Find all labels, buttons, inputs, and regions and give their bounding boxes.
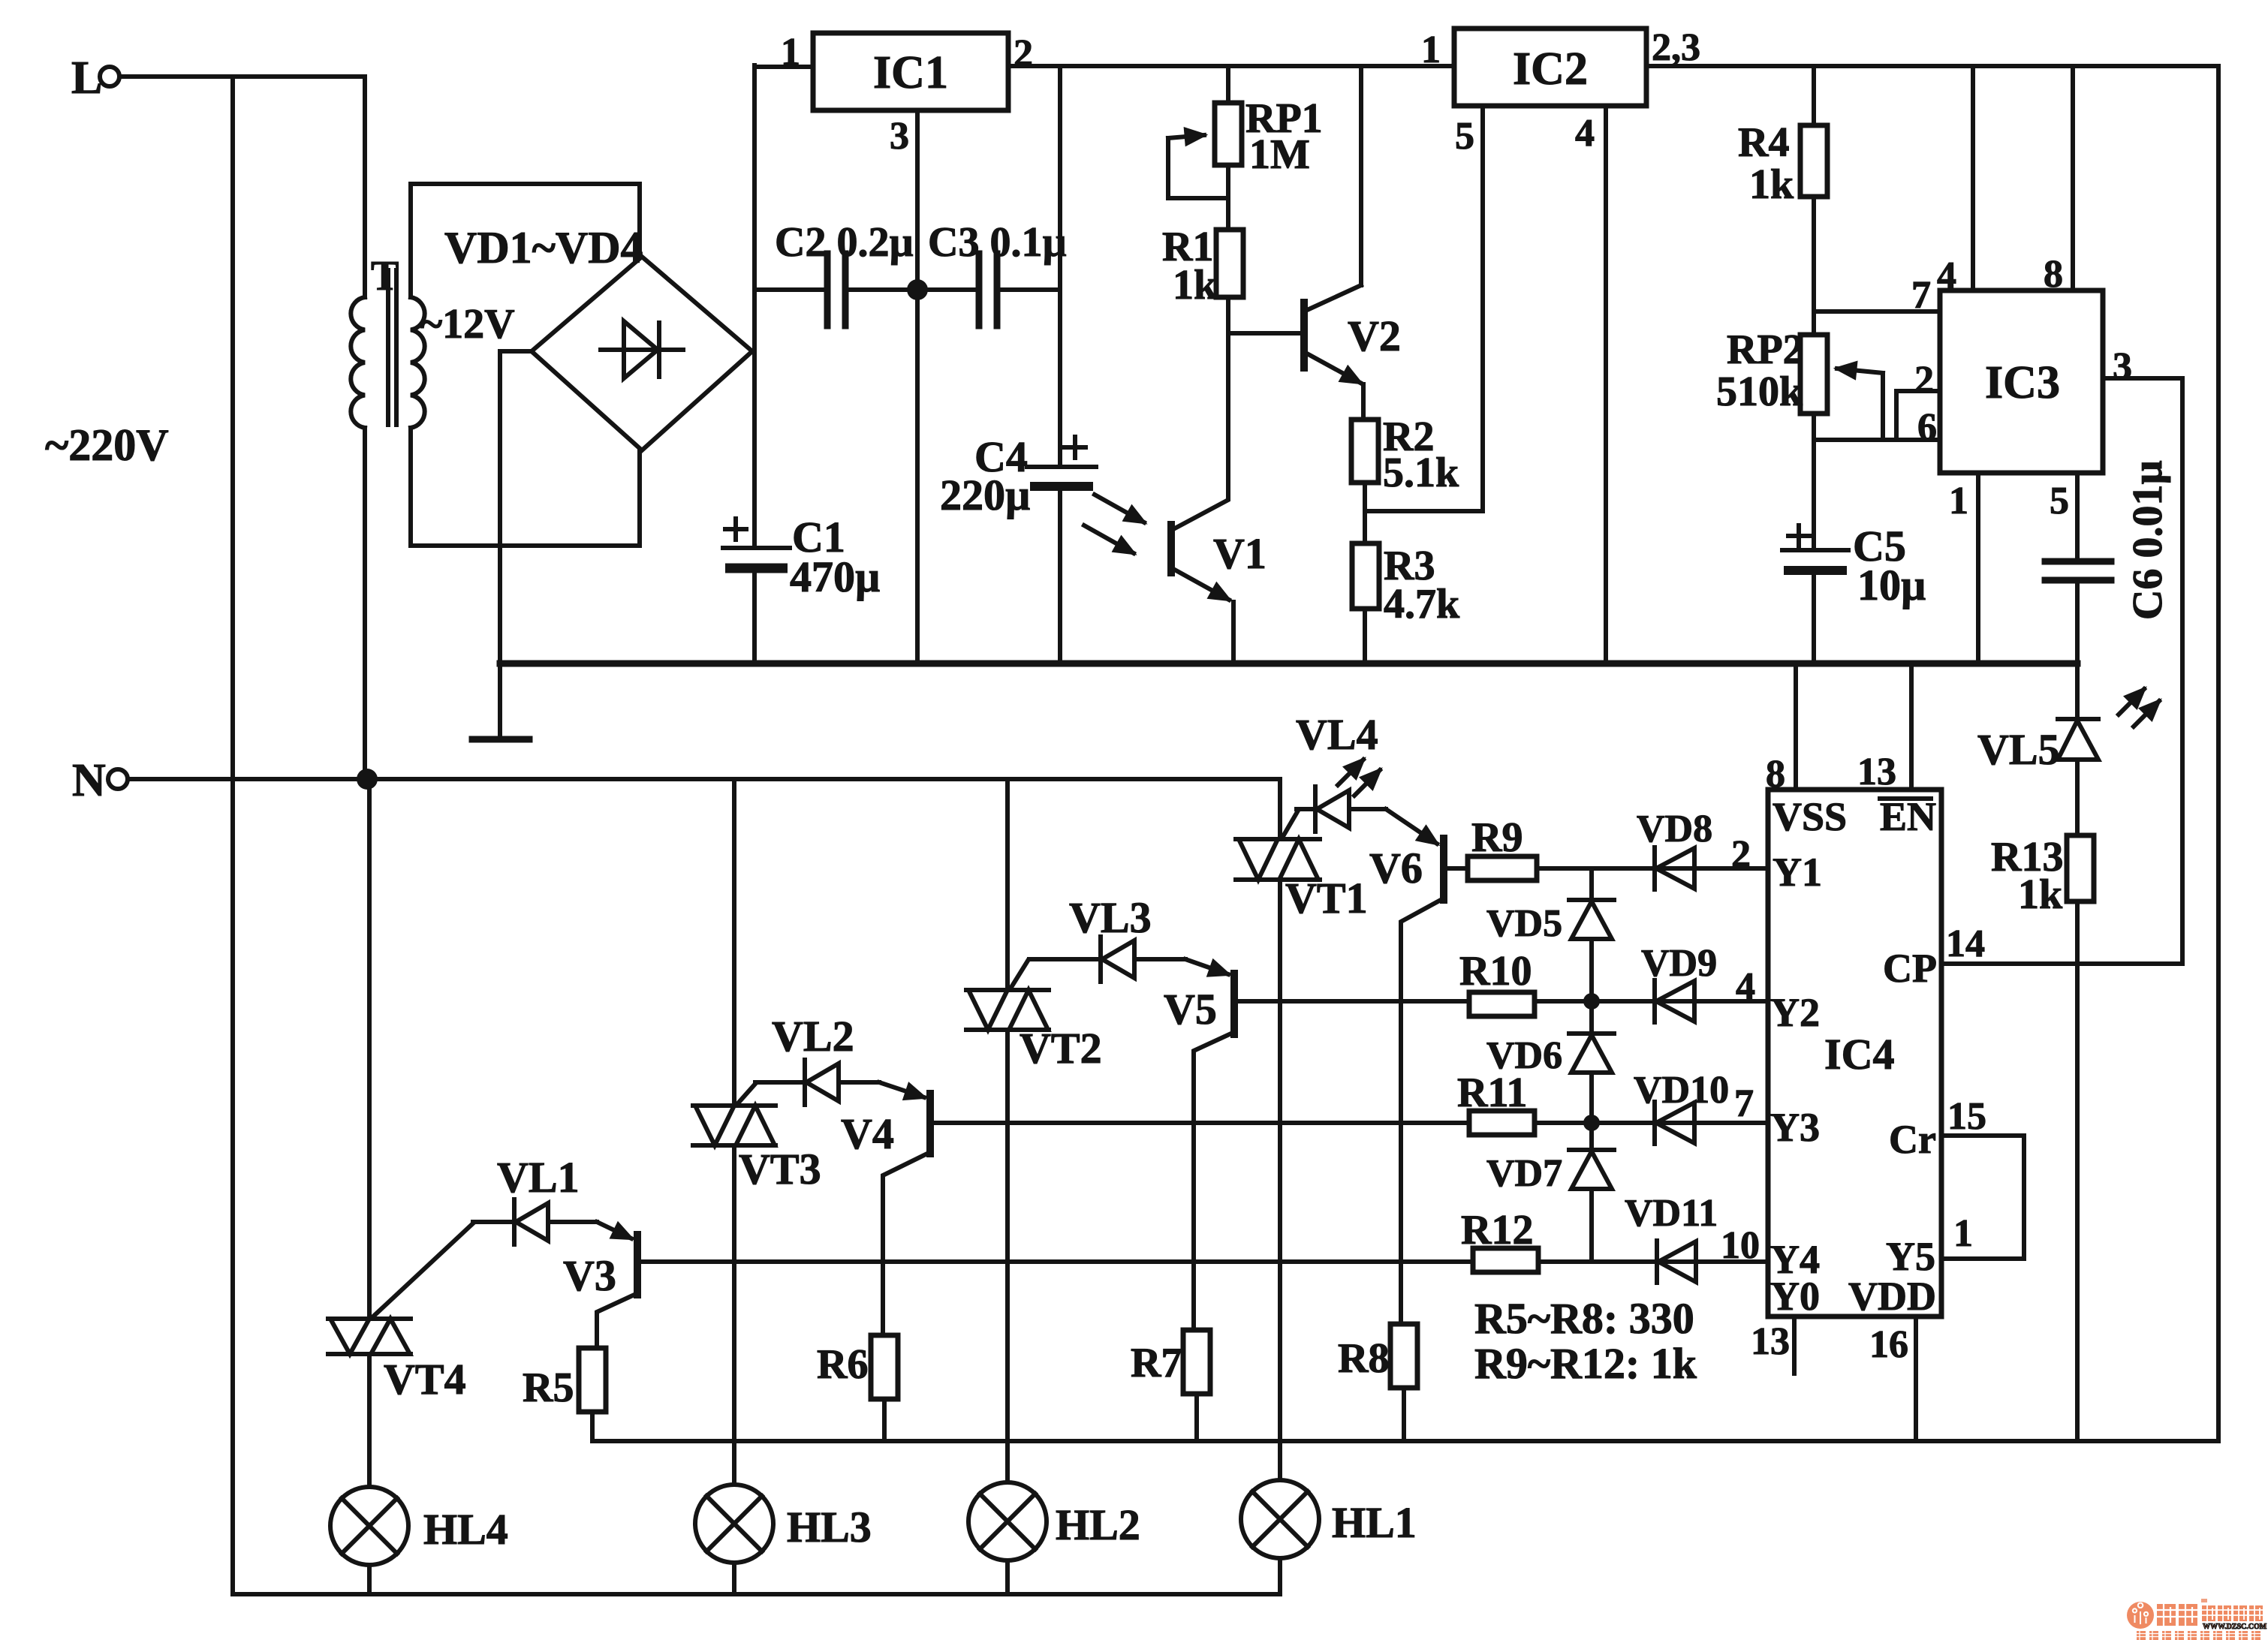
wire top rail IC1 pin2 to IC2 pin1 [1008,64,1454,68]
svg-text:VD9: VD9 [1641,942,1717,985]
svg-text:V3: V3 [563,1251,616,1300]
watermark text 专业电子元器件交易网站 [2137,1631,2260,1640]
svg-text:14: 14 [1946,922,1985,965]
op IC3 box [1940,290,2103,473]
svg-text:T: T [371,253,399,299]
svg-text:VL2: VL2 [772,1012,854,1061]
wire transformer primary bottom to N rail [363,428,367,779]
node junction C2/C3/pin3 [907,279,928,300]
resistor R3 [1352,543,1460,627]
transformer T secondary winding [411,297,425,428]
wire bridge plus down to C1 [752,351,757,548]
svg-text:CP: CP [1883,946,1937,991]
diode VD5 [1486,868,1614,1001]
transistor V2 [1304,66,1401,420]
wire Cr to Y5 loop [1941,1136,2024,1259]
transistor V4 [841,1082,1469,1335]
svg-text:C6 0.01µ: C6 0.01µ [2125,460,2171,620]
svg-text:8: 8 [2044,253,2063,296]
potentiometer RP2 [1716,326,1883,440]
wire IC1 pin1 left [754,65,813,69]
svg-text:VL3: VL3 [1069,893,1152,942]
resistor R2 [1351,414,1459,496]
svg-text:5: 5 [1455,115,1474,158]
svg-text:WWW.DZSC.COM: WWW.DZSC.COM [2203,1623,2267,1631]
svg-text:VT3: VT3 [739,1145,821,1193]
svg-text:220µ: 220µ [940,471,1030,519]
resistor R7 [1131,1330,1210,1441]
wire top rail IC2 to right edge [1646,64,2218,68]
wire bridge minus corner to ground [500,351,532,738]
wire bottom return rail [233,1592,1280,1596]
wire +5V vertical from top rail through C4 [1058,66,1062,467]
svg-text:HL1: HL1 [1332,1498,1417,1547]
svg-text:VD5: VD5 [1486,902,1562,945]
resistor R9 [1468,814,1537,880]
svg-text:1M: 1M [1249,131,1310,178]
node N terminal [72,755,128,806]
svg-text:V1: V1 [1213,529,1267,578]
svg-text:3: 3 [890,115,909,158]
resistor R4 [1738,66,1827,335]
svg-text:VL1: VL1 [497,1153,580,1202]
svg-text:R9~R12: 1k: R9~R12: 1k [1474,1339,1697,1388]
svg-text:C3 0.1µ: C3 0.1µ [928,219,1067,266]
LED VL3 [1029,893,1185,982]
diode VD10 [1535,1069,1768,1144]
wire R2 to R3 [1363,483,1367,543]
diode VD6 [1486,1001,1614,1123]
transformer T primary winding [351,297,365,428]
svg-text:Y2: Y2 [1770,990,1820,1035]
diode VD7 [1486,1123,1614,1262]
capacitor C4 [940,432,1096,664]
capacitor C5 [1782,440,1926,664]
LED VL5 [1977,689,2159,835]
wire V2 base tap [1228,331,1300,336]
LED VL4 [1296,710,1386,832]
svg-text:1: 1 [1421,29,1441,71]
svg-text:5: 5 [2050,480,2069,522]
optocoupler transistor V1 [1084,495,1267,664]
op IC2 box [1454,29,1646,106]
svg-text:R4: R4 [1738,119,1789,166]
transformer T core [386,270,390,425]
svg-text:VL5: VL5 [1977,725,2060,774]
svg-text:C2 0.2µ: C2 0.2µ [775,219,914,266]
wire left vertical rail from L down to bottom rail [230,77,235,1594]
svg-text:L: L [71,53,102,104]
svg-text:R7: R7 [1131,1340,1182,1386]
wire right edge vertical top rail to VDD rail [2216,66,2221,1441]
svg-text:R12: R12 [1461,1207,1533,1253]
svg-text:VDD: VDD [1848,1274,1936,1319]
watermark logo circle [2127,1602,2154,1629]
svg-text:10µ: 10µ [1857,561,1926,609]
triac VT3 [693,779,821,1485]
svg-text:4: 4 [1575,112,1595,155]
svg-text:V6: V6 [1369,844,1423,892]
svg-text:VSS: VSS [1773,794,1847,839]
wire IC3 pin5 to C6 [2075,473,2080,561]
wire ground rail horizontal [500,661,2077,667]
svg-text:IC3: IC3 [1985,357,2060,408]
svg-text:VD11: VD11 [1625,1192,1718,1235]
svg-text:8: 8 [1766,753,1785,796]
op IC1 regulator box [813,33,1008,110]
svg-text:V4: V4 [841,1109,894,1158]
node junction VD6/R11 [1583,1115,1600,1131]
diode VD11 [1538,1192,1768,1283]
svg-text:IC2: IC2 [1513,44,1588,95]
svg-text:R10: R10 [1459,948,1532,995]
svg-text:V5: V5 [1164,985,1217,1034]
wire IC4 Y0 pin13 stub [1792,1317,1797,1374]
svg-text:5.1k: 5.1k [1383,450,1459,496]
svg-text:4.7k: 4.7k [1384,581,1460,627]
wire R3 to ground rail [1363,609,1367,664]
svg-text:13: 13 [1751,1320,1790,1363]
resistor R5 [523,1348,606,1441]
watermark text 电子市场网 [2202,1605,2263,1621]
resistor R6 [817,1335,898,1441]
svg-text:2,3: 2,3 [1652,26,1700,69]
svg-text:1: 1 [1949,480,1968,522]
svg-text:VD7: VD7 [1486,1152,1562,1195]
svg-text:1k: 1k [1173,262,1218,308]
wire L to transformer [119,74,365,79]
wire bottom supply rail [592,1439,2218,1443]
potentiometer RP1 [1168,66,1323,230]
wire IC3 pin3 to CP column [2103,378,2182,964]
resistor R8 [1338,1324,1417,1441]
bridge rectifier VD1~VD4 diamond [532,257,752,450]
resistor R13 [1991,834,2094,1441]
wire IC3 pin7 [1814,309,1940,314]
watermark text 维库 [2157,1604,2197,1626]
wire IC2 pin4 to ground rail [1604,106,1608,664]
node junction transformer/VT4 on N rail [357,769,378,790]
resistor R1 [1162,224,1243,308]
svg-text:470µ: 470µ [790,552,880,601]
resistor R11 [1457,1070,1535,1135]
svg-text:1: 1 [1953,1212,1973,1255]
wire transformer primary top [363,77,367,297]
svg-text:1k: 1k [1749,161,1794,208]
capacitor C6 [2045,460,2171,664]
svg-text:1k: 1k [2018,871,2063,918]
svg-text:HL4: HL4 [423,1505,508,1554]
wire IC3 pin8 to top rail [2071,66,2075,290]
transistor V6 [1369,809,1468,1324]
svg-text:VD8: VD8 [1637,808,1712,850]
svg-text:HL3: HL3 [787,1503,872,1551]
svg-text:VD1~VD4: VD1~VD4 [444,223,643,272]
svg-text:RP2: RP2 [1727,326,1804,373]
wire IC3 pin2 jog [1896,391,1940,440]
svg-text:3: 3 [2113,345,2132,388]
diode VD8 [1537,808,1768,889]
svg-text:VD10: VD10 [1634,1069,1729,1112]
svg-text:Y5: Y5 [1886,1234,1935,1279]
wire secondary loop rectangle to bridge [411,184,640,297]
lamp HL2 [968,1482,1140,1594]
triac VT1 [1236,779,1368,1480]
wire IC3 pin4 to top rail [1971,66,1975,290]
capacitor C2 [754,219,917,326]
LED VL1 [473,1153,597,1244]
svg-text:15: 15 [1947,1095,1986,1138]
wire N rail [128,777,1280,781]
node junction VD5/R10 [1583,993,1600,1010]
svg-text:Y3: Y3 [1770,1105,1820,1150]
svg-text:VL4: VL4 [1296,710,1378,759]
wire IC4 VSS pin8 to ground rail [1794,664,1798,790]
transistor V3 [563,1222,1473,1348]
svg-text:IC1: IC1 [873,47,948,98]
svg-text:2: 2 [1014,32,1033,75]
resistor R10 [1459,948,1535,1016]
capacitor C3 [917,219,1067,326]
svg-text:N: N [72,755,106,806]
wire IC3 pin1 to ground rail [1976,473,1980,664]
svg-text:510k: 510k [1716,369,1803,415]
svg-text:Cr: Cr [1889,1117,1936,1162]
resistor R12 [1461,1207,1538,1272]
svg-text:~12V: ~12V [420,301,515,348]
LED VL2 [755,1012,879,1105]
op IC4 box [1768,790,1941,1317]
svg-text:16: 16 [1869,1323,1908,1366]
capacitor C1 [723,513,880,664]
svg-text:VT1: VT1 [1285,874,1368,922]
transistor V5 [1164,959,1469,1330]
svg-text:~220V: ~220V [45,420,169,470]
wire IC4 EN pin13 to ground rail [1909,664,1914,790]
wire IC3 pin6 row [1814,438,1940,442]
svg-text:Y0: Y0 [1770,1274,1820,1319]
svg-text:VD6: VD6 [1486,1034,1562,1077]
wire C6 to VL5 [2075,664,2080,719]
triac VT2 [966,779,1102,1482]
svg-text:2: 2 [1914,359,1934,402]
lamp HL4 [330,1487,508,1594]
wire IC4 VDD pin16 [1914,1317,1918,1441]
triac VT4 [328,779,473,1487]
watermark TM mark [2201,1599,2207,1602]
ground symbol [472,736,529,743]
svg-text:6: 6 [1917,406,1937,449]
svg-text:7: 7 [1734,1082,1754,1125]
lamp HL3 [695,1485,872,1594]
svg-text:R8: R8 [1338,1335,1389,1382]
svg-text:VT4: VT4 [384,1355,466,1404]
svg-text:R6: R6 [817,1341,868,1388]
node L terminal [71,53,119,104]
bridge rectifier diode symbol [601,348,683,352]
wire IC1 pin3 down to ground rail [915,110,920,664]
wire CP pin14 row [1941,961,2182,966]
svg-text:V2: V2 [1348,311,1401,360]
svg-text:13: 13 [1857,751,1896,793]
svg-text:R5~R8: 330: R5~R8: 330 [1474,1294,1694,1343]
svg-text:4: 4 [1937,254,1956,297]
svg-text:HL2: HL2 [1056,1500,1140,1549]
svg-text:7: 7 [1911,274,1931,317]
svg-text:VT2: VT2 [1020,1024,1102,1073]
svg-text:IC4: IC4 [1824,1030,1894,1079]
wire R1 bottom to V1 collector [1173,297,1228,529]
svg-text:Y1: Y1 [1773,850,1822,895]
svg-text:R5: R5 [523,1365,574,1411]
wire R2R3 junction to IC2 pin5 [1365,106,1483,511]
svg-text:R9: R9 [1471,814,1523,861]
lamp HL1 [1241,1480,1417,1594]
wire bridge plus corner up to IC1 input [752,65,754,351]
diode VD9 [1535,942,1768,1022]
